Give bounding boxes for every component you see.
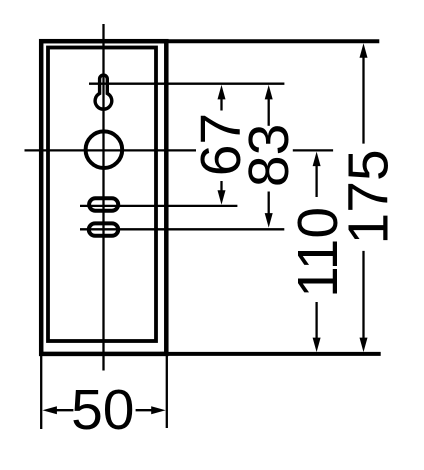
top edge extension line <box>160 39 379 43</box>
bottom edge extension line <box>160 352 381 356</box>
dim 67 line lower <box>220 181 222 194</box>
svg-text:83: 83 <box>237 124 301 187</box>
dim 175 line lower <box>362 251 364 340</box>
vertical centerline <box>102 24 104 371</box>
horizontal centerline left segment <box>25 149 197 151</box>
plate inner rectangle <box>48 48 156 342</box>
arrowhead 175 down <box>360 338 368 353</box>
arrowhead 67 down <box>218 190 226 205</box>
dim 83 line lower <box>268 192 270 216</box>
slot2 extension line <box>80 228 284 230</box>
slot1 extension line <box>80 205 237 207</box>
arrowhead 175 up <box>360 43 368 58</box>
50-dim left extension line <box>40 354 42 429</box>
arrowhead 83 down <box>265 213 273 228</box>
arrowhead 50 left <box>42 406 57 414</box>
50-dim right extension line <box>166 354 168 428</box>
horizontal centerline right segment <box>293 149 333 151</box>
arrowhead 110 down <box>313 338 321 353</box>
arrowhead 67 up <box>218 85 226 100</box>
slot 2 <box>89 223 118 235</box>
dim 50 line left <box>55 409 73 411</box>
dim 110 line upper <box>315 163 317 197</box>
dim 50 line right <box>136 409 153 411</box>
center hole circle <box>86 131 123 168</box>
keyhole slot <box>95 75 112 109</box>
plate outer rectangle <box>41 41 166 354</box>
dim 67 line upper <box>220 97 222 111</box>
arrowhead 50 right <box>151 406 166 414</box>
svg-text:50: 50 <box>71 378 134 442</box>
arrowhead 83 up <box>265 85 273 100</box>
arrowhead 110 up <box>313 152 321 167</box>
dim 175 line upper <box>362 55 364 144</box>
keyhole extension line <box>89 83 284 85</box>
dim 110 line lower <box>315 302 317 340</box>
dim 83 line upper <box>268 97 270 126</box>
svg-text:175: 175 <box>336 149 400 244</box>
slot 1 <box>89 198 118 211</box>
